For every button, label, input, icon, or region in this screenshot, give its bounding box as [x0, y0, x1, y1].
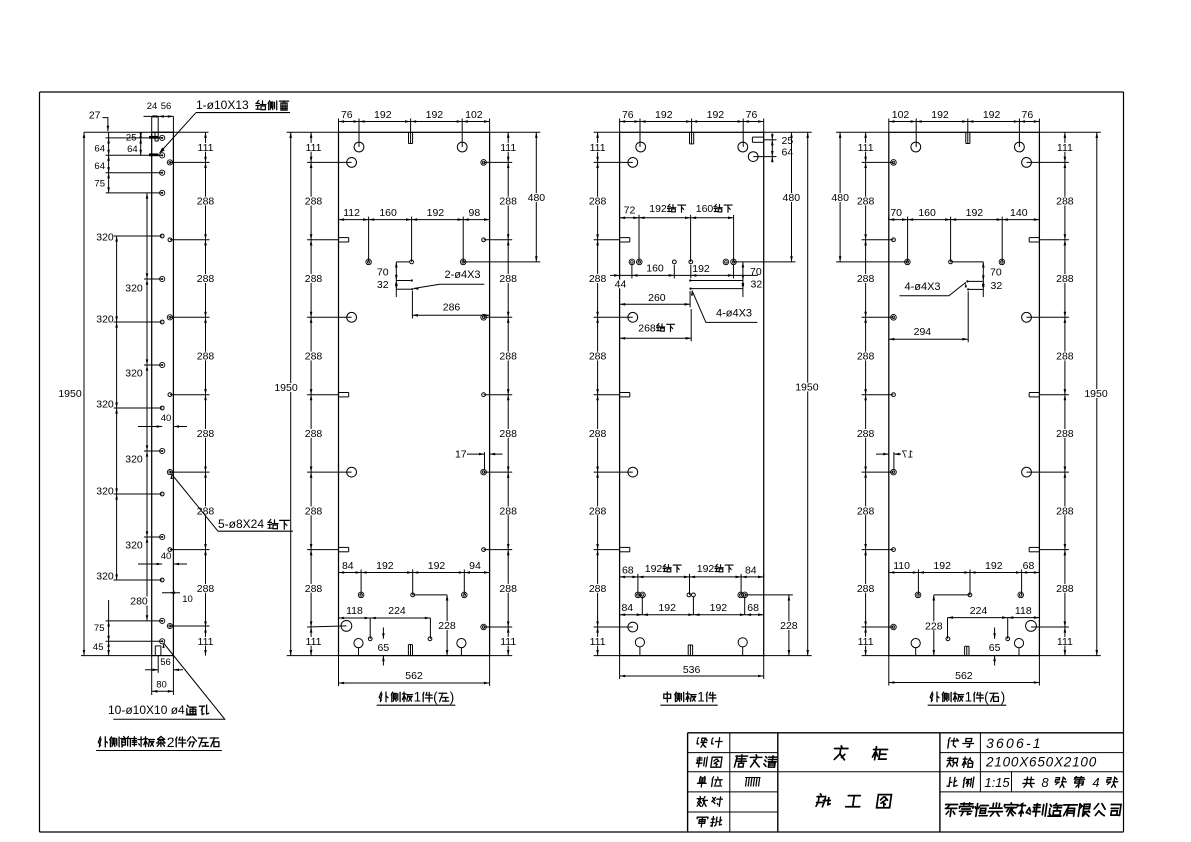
- svg-text:288: 288: [1056, 273, 1074, 285]
- svg-text:288: 288: [857, 273, 875, 285]
- svg-text:288: 288: [305, 351, 323, 363]
- svg-text:75: 75: [94, 179, 105, 190]
- svg-text:288: 288: [857, 196, 875, 208]
- svg-text:320: 320: [125, 540, 143, 552]
- svg-text:64: 64: [94, 144, 105, 155]
- svg-text:192: 192: [658, 602, 676, 614]
- svg-text:320: 320: [125, 283, 143, 295]
- svg-text:84: 84: [621, 602, 633, 614]
- svg-text:192: 192: [692, 263, 710, 275]
- svg-text:192: 192: [426, 109, 444, 121]
- svg-text:288: 288: [499, 428, 517, 440]
- svg-text:288: 288: [857, 351, 875, 363]
- svg-text:70: 70: [750, 266, 762, 278]
- svg-text:44: 44: [615, 279, 627, 291]
- svg-text:294: 294: [914, 326, 932, 338]
- svg-text:5-ø8X24: 5-ø8X24: [218, 517, 264, 531]
- svg-text:1950: 1950: [1084, 388, 1108, 400]
- svg-text:17: 17: [902, 449, 914, 461]
- svg-text:1950: 1950: [274, 382, 298, 394]
- svg-text:192: 192: [427, 207, 445, 219]
- svg-text:56: 56: [161, 101, 172, 112]
- svg-text:320: 320: [125, 368, 143, 380]
- svg-text:111: 111: [306, 142, 322, 154]
- svg-text:40: 40: [161, 551, 172, 562]
- svg-text:140: 140: [1010, 207, 1028, 219]
- svg-text:288: 288: [197, 273, 215, 285]
- svg-text:280: 280: [130, 596, 148, 608]
- svg-text:192: 192: [931, 109, 949, 121]
- svg-text:288: 288: [857, 505, 875, 517]
- svg-text:160: 160: [918, 207, 936, 219]
- svg-text:288: 288: [305, 505, 323, 517]
- svg-text:): ): [1001, 690, 1005, 705]
- svg-text:68: 68: [1023, 560, 1035, 572]
- svg-text:1950: 1950: [795, 382, 819, 394]
- svg-text:76: 76: [1022, 109, 1034, 121]
- svg-text:10: 10: [182, 594, 193, 605]
- svg-text:68: 68: [747, 602, 759, 614]
- svg-text:24: 24: [147, 101, 158, 112]
- svg-text:64: 64: [94, 161, 105, 172]
- svg-text:320: 320: [96, 486, 114, 498]
- svg-text:(: (: [433, 690, 438, 705]
- svg-text:288: 288: [499, 351, 517, 363]
- svg-text:288: 288: [1056, 196, 1074, 208]
- svg-text:84: 84: [342, 560, 354, 572]
- svg-text:1950: 1950: [58, 388, 82, 400]
- svg-text:288: 288: [589, 196, 607, 208]
- svg-text:64: 64: [782, 147, 794, 159]
- svg-text:228: 228: [780, 620, 798, 632]
- svg-text:32: 32: [991, 280, 1003, 292]
- svg-text:536: 536: [683, 664, 701, 676]
- svg-text:111: 111: [1057, 636, 1073, 648]
- svg-text:480: 480: [783, 192, 801, 204]
- svg-text:288: 288: [499, 583, 517, 595]
- svg-text:288: 288: [305, 583, 323, 595]
- svg-text:268: 268: [638, 322, 656, 334]
- svg-text:288: 288: [499, 505, 517, 517]
- svg-text:45: 45: [93, 642, 104, 653]
- svg-text:320: 320: [96, 232, 114, 244]
- svg-text:288: 288: [499, 196, 517, 208]
- svg-text:192: 192: [697, 563, 715, 575]
- svg-text:32: 32: [751, 279, 763, 291]
- svg-text:4: 4: [1092, 775, 1099, 790]
- svg-text:288: 288: [1056, 505, 1074, 517]
- svg-text:160: 160: [696, 203, 714, 215]
- svg-text:288: 288: [305, 428, 323, 440]
- svg-text:3606-1: 3606-1: [986, 735, 1043, 751]
- svg-text:1: 1: [414, 690, 421, 705]
- svg-text:65: 65: [989, 642, 1001, 654]
- svg-text:94: 94: [469, 560, 481, 572]
- svg-text:98: 98: [469, 207, 481, 219]
- svg-text:111: 111: [858, 142, 874, 154]
- svg-text:17: 17: [455, 449, 467, 461]
- svg-text:118: 118: [346, 605, 363, 617]
- svg-text:260: 260: [648, 292, 666, 304]
- svg-text:320: 320: [96, 571, 114, 583]
- svg-text:70: 70: [890, 207, 902, 219]
- svg-text:2: 2: [167, 734, 175, 750]
- svg-text:10-ø10X10 ø4: 10-ø10X10 ø4: [108, 703, 185, 717]
- svg-text:76: 76: [746, 109, 758, 121]
- svg-text:320: 320: [125, 454, 143, 466]
- svg-text:288: 288: [589, 583, 607, 595]
- svg-text:228: 228: [925, 620, 943, 632]
- svg-text:65: 65: [378, 642, 390, 654]
- svg-text:1: 1: [697, 690, 704, 705]
- svg-text:160: 160: [379, 207, 397, 219]
- svg-text:68: 68: [622, 565, 634, 577]
- svg-text:288: 288: [305, 273, 323, 285]
- svg-text:): ): [450, 690, 454, 705]
- svg-text:25: 25: [782, 135, 794, 147]
- svg-text:110: 110: [893, 560, 910, 572]
- svg-text:4-ø4X3: 4-ø4X3: [716, 308, 752, 320]
- svg-text:111: 111: [500, 142, 516, 154]
- svg-text:562: 562: [405, 670, 423, 682]
- svg-text:72: 72: [624, 205, 636, 217]
- svg-text:32: 32: [377, 279, 389, 291]
- svg-text:111: 111: [500, 636, 516, 648]
- svg-text:111: 111: [858, 636, 874, 648]
- svg-text:192: 192: [376, 560, 394, 572]
- svg-text:111: 111: [1057, 142, 1073, 154]
- svg-text:1: 1: [965, 690, 972, 705]
- svg-text:27: 27: [89, 110, 101, 122]
- svg-text:76: 76: [622, 109, 634, 121]
- svg-text:192: 192: [374, 109, 392, 121]
- svg-text:118: 118: [1015, 605, 1032, 617]
- svg-text:75: 75: [94, 623, 105, 634]
- svg-text:288: 288: [589, 273, 607, 285]
- svg-text:562: 562: [955, 670, 973, 682]
- svg-text:40: 40: [161, 413, 172, 424]
- svg-text:288: 288: [197, 428, 215, 440]
- svg-text:288: 288: [197, 196, 215, 208]
- svg-text:288: 288: [589, 351, 607, 363]
- svg-text:111: 111: [198, 142, 214, 154]
- svg-text:(: (: [984, 690, 989, 705]
- svg-text:102: 102: [465, 109, 483, 121]
- svg-text:288: 288: [499, 273, 517, 285]
- svg-text:70: 70: [990, 267, 1002, 279]
- svg-text:288: 288: [1056, 428, 1074, 440]
- svg-text:288: 288: [857, 583, 875, 595]
- svg-text:2-ø4X3: 2-ø4X3: [444, 269, 480, 281]
- svg-text:192: 192: [966, 207, 984, 219]
- svg-text:102: 102: [892, 109, 910, 121]
- svg-text:286: 286: [443, 302, 461, 314]
- svg-text:80: 80: [156, 680, 167, 691]
- svg-text:288: 288: [1056, 351, 1074, 363]
- svg-text:192: 192: [933, 560, 951, 572]
- svg-text:56: 56: [160, 657, 171, 668]
- svg-text:2100X650X2100: 2100X650X2100: [985, 754, 1097, 769]
- svg-text:288: 288: [305, 196, 323, 208]
- svg-text:111: 111: [590, 636, 606, 648]
- svg-text:111: 111: [590, 142, 606, 154]
- svg-text:288: 288: [857, 428, 875, 440]
- svg-text:192: 192: [655, 109, 673, 121]
- svg-text:4-ø4X3: 4-ø4X3: [904, 281, 940, 293]
- svg-text:480: 480: [831, 192, 849, 204]
- svg-text:112: 112: [343, 207, 360, 219]
- svg-text:192: 192: [649, 203, 667, 215]
- svg-text:480: 480: [528, 192, 546, 204]
- svg-text:192: 192: [428, 560, 446, 572]
- svg-text:224: 224: [970, 605, 988, 617]
- svg-text:288: 288: [1056, 583, 1074, 595]
- svg-text:1:15: 1:15: [984, 775, 1010, 790]
- svg-text:8: 8: [1041, 775, 1049, 790]
- svg-text:192: 192: [645, 563, 663, 575]
- svg-text:111: 111: [198, 636, 214, 648]
- svg-text:288: 288: [197, 583, 215, 595]
- svg-text:70: 70: [377, 266, 389, 278]
- svg-text:288: 288: [589, 505, 607, 517]
- svg-text:1-ø10X13: 1-ø10X13: [196, 98, 249, 112]
- svg-text:111: 111: [306, 636, 322, 648]
- svg-text:320: 320: [96, 314, 114, 326]
- svg-text:84: 84: [745, 565, 757, 577]
- svg-text:64: 64: [127, 144, 138, 155]
- svg-text:288: 288: [197, 351, 215, 363]
- svg-text:76: 76: [341, 109, 353, 121]
- svg-text:160: 160: [646, 263, 664, 275]
- svg-text:224: 224: [388, 605, 406, 617]
- svg-text:192: 192: [985, 560, 1003, 572]
- svg-text:288: 288: [589, 428, 607, 440]
- svg-text:192: 192: [710, 602, 728, 614]
- svg-text:228: 228: [438, 620, 456, 632]
- svg-text:320: 320: [96, 399, 114, 411]
- svg-text:192: 192: [983, 109, 1001, 121]
- svg-text:192: 192: [707, 109, 725, 121]
